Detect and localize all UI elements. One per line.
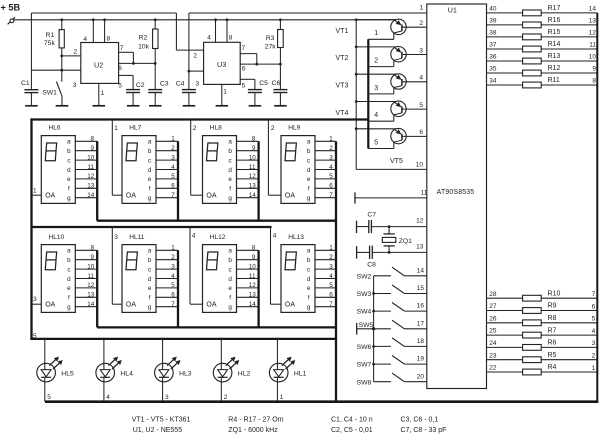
wire HL12 segment c net 10 (237, 263, 259, 270)
wire HL9 OA feed net 2 (268, 120, 281, 196)
pin U1 15 label (417, 285, 425, 292)
svg-text:12: 12 (589, 30, 597, 37)
wire U3 pin2 (176, 49, 203, 51)
svg-text:10: 10 (589, 54, 597, 61)
node base wire 4 label (374, 112, 378, 119)
capacitor C2 (126, 90, 140, 106)
resistor R11 (523, 82, 542, 88)
svg-text:6: 6 (118, 65, 122, 72)
svg-text:R12: R12 (548, 65, 561, 72)
svg-text:18: 18 (417, 338, 425, 345)
wire U3 pin6 (240, 63, 280, 65)
wire display block left bus (30, 118, 32, 340)
svg-text:1: 1 (171, 245, 175, 252)
capacitor C6 (273, 90, 287, 106)
svg-text:HL13: HL13 (288, 234, 304, 241)
wire HL9 segment e net 5 (315, 173, 336, 180)
node R3-pin6 junction (279, 63, 282, 66)
pin U1 3 label (419, 47, 423, 54)
wire U3 pin5 (240, 79, 255, 89)
svg-text:10: 10 (249, 154, 257, 161)
node net 7 label (592, 291, 596, 298)
svg-text:HL8: HL8 (210, 124, 222, 131)
resistor R10 label (548, 290, 561, 297)
LED HL5 label (61, 370, 74, 377)
wire U2 output link top (31, 12, 176, 14)
ground C7 terminal bar (356, 221, 358, 233)
wire HL9 segment a net 1 (315, 136, 336, 143)
ground U2 pin1 (93, 105, 106, 107)
caption C7 C8 (401, 427, 447, 434)
switch SW4 (374, 303, 427, 312)
svg-text:c: c (307, 157, 310, 164)
pin U2 3 label (73, 82, 77, 89)
wire U1 pin23 net 2 (487, 359, 598, 361)
svg-text:R9: R9 (548, 303, 557, 310)
svg-text:13: 13 (589, 18, 597, 25)
node rail-R2 junction (154, 18, 157, 21)
svg-text:1: 1 (592, 365, 596, 372)
switch SW6 label (357, 344, 372, 351)
display HL7 label (129, 124, 141, 131)
svg-text:5: 5 (374, 139, 378, 146)
wire HL10 segment g net 14 (75, 301, 97, 308)
wire U3 pin3 (189, 70, 204, 72)
svg-text:12: 12 (416, 218, 424, 225)
svg-text:C3: C3 (160, 81, 169, 88)
capacitor C3 label (160, 81, 169, 88)
svg-text:3: 3 (73, 82, 77, 89)
wire HL8 segment d net 11 (237, 164, 259, 171)
wire HL10 segment a net 8 (75, 245, 97, 252)
display HL12 box (203, 245, 237, 313)
node C8-ZQ1 junction (388, 251, 391, 254)
svg-text:HL7: HL7 (129, 124, 141, 131)
caption resistors (228, 416, 283, 423)
transistor VT5 label (390, 158, 403, 165)
svg-text:HL1: HL1 (294, 370, 307, 377)
wire HL11 segment c net 3 (156, 263, 178, 270)
svg-text:13: 13 (249, 183, 257, 190)
node U2 pin8 rail junction (103, 18, 106, 21)
resistor R6 (523, 345, 542, 351)
wire HL10 segment d net 11 (75, 273, 97, 280)
svg-text:4: 4 (374, 112, 378, 119)
wire U1 pin28 net 7 (487, 297, 598, 299)
display HL7 box (122, 136, 156, 204)
svg-text:R11: R11 (548, 77, 560, 84)
wire row2 collect bus (97, 326, 336, 328)
svg-text:g: g (148, 195, 152, 202)
svg-text:VT2: VT2 (336, 55, 349, 62)
pin U1 10 label (416, 161, 424, 168)
svg-text:SW4: SW4 (357, 309, 372, 316)
display HL10 box (41, 245, 75, 313)
svg-text:14: 14 (589, 6, 597, 13)
svg-text:4: 4 (171, 164, 175, 171)
wire U1 pin36 net 10 (487, 60, 598, 62)
svg-text:f: f (68, 295, 70, 302)
display HL10 label (49, 234, 65, 241)
svg-text:19: 19 (417, 356, 425, 363)
node R1-pin3 junction (60, 69, 63, 72)
node rail corner junction (355, 18, 358, 21)
svg-text:VT1: VT1 (336, 28, 349, 35)
svg-text:HL10: HL10 (49, 234, 65, 241)
svg-text:f: f (229, 295, 231, 302)
resistor R11 label (548, 77, 560, 84)
svg-text:c: c (229, 157, 232, 164)
svg-text:VT3: VT3 (336, 83, 349, 90)
node U3 pin4 rail junction (214, 18, 217, 21)
svg-text:5: 5 (171, 282, 175, 289)
svg-text:6: 6 (329, 183, 333, 190)
svg-text:11: 11 (88, 273, 95, 280)
svg-text:2: 2 (193, 52, 197, 59)
svg-text:a: a (148, 248, 152, 255)
svg-text:7: 7 (242, 45, 246, 52)
op-amp U1 label (448, 6, 457, 15)
svg-text:OA: OA (285, 302, 295, 309)
svg-text:e: e (307, 176, 311, 183)
pin U1 12 label (416, 218, 424, 225)
svg-text:ZQ1: ZQ1 (399, 238, 412, 245)
svg-text:R17: R17 (548, 5, 561, 12)
pin U1 35 label (489, 66, 497, 73)
svg-text:e: e (148, 285, 152, 292)
svg-text:1: 1 (171, 136, 175, 143)
svg-text:d: d (67, 167, 71, 174)
pin U2 4 label (83, 36, 87, 43)
switch SW2 label (357, 273, 372, 280)
resistor R12 (523, 70, 542, 76)
svg-text:7: 7 (329, 301, 333, 308)
svg-text:9: 9 (252, 254, 256, 261)
node U3 pin8 rail junction (226, 18, 229, 21)
svg-text:C5: C5 (259, 80, 268, 87)
svg-text:35: 35 (489, 66, 497, 73)
capacitor C7 (357, 220, 427, 233)
svg-text:OA: OA (126, 193, 136, 200)
ground SW5 terminal bar (356, 323, 358, 335)
resistor R14 (523, 46, 542, 52)
svg-text:g: g (307, 304, 311, 311)
svg-text:10: 10 (87, 263, 95, 270)
switch SW7 (374, 356, 427, 365)
wire bottom border bus (45, 400, 598, 403)
display HL9 label (288, 124, 300, 131)
svg-text:d: d (228, 167, 232, 174)
pin U1 37 label (489, 42, 497, 49)
svg-text:9: 9 (90, 254, 94, 261)
pin U1 14 label (417, 267, 425, 274)
svg-text:g: g (228, 304, 232, 311)
svg-text:7: 7 (171, 301, 175, 308)
pin U1 11 label (421, 190, 428, 197)
svg-text:4: 4 (106, 394, 110, 401)
svg-text:a: a (228, 248, 232, 255)
wire HL8 segment a net 8 (237, 136, 259, 143)
svg-text:c: c (229, 266, 232, 273)
svg-text:38: 38 (489, 30, 497, 37)
wire HL13 OA feed net 4 (271, 227, 282, 304)
svg-text:R5: R5 (548, 352, 557, 359)
svg-text:12: 12 (87, 282, 95, 289)
svg-text:5: 5 (329, 173, 333, 180)
wire HL12 OA feed net 4 (190, 227, 203, 304)
svg-text:14: 14 (249, 301, 257, 308)
wire HL11 segment a net 1 (156, 245, 178, 252)
LED HL4 (96, 338, 122, 402)
svg-text:b: b (228, 148, 232, 155)
node net 4 label (592, 328, 596, 335)
wire switch common bus (373, 276, 375, 382)
node net 1 label (592, 365, 596, 372)
wire display block right bus (335, 141, 337, 401)
wire HL8 segment e net 12 (237, 173, 259, 180)
node SW6 bus junction (372, 345, 375, 348)
svg-text:R4: R4 (548, 364, 557, 371)
wire HL13 segment e net 5 (315, 282, 336, 289)
svg-text:8: 8 (229, 34, 233, 41)
svg-text:17: 17 (417, 320, 425, 327)
svg-text:2: 2 (171, 145, 175, 152)
svg-text:R6: R6 (548, 340, 557, 347)
svg-text:11: 11 (249, 273, 256, 280)
ground C2 (127, 105, 139, 107)
svg-text:1: 1 (114, 125, 118, 132)
wire HL7 segment b net 2 (156, 145, 178, 152)
display HL11 label (129, 234, 145, 241)
display HL12 label (210, 234, 226, 241)
caption transistors (132, 416, 191, 423)
svg-text:HL9: HL9 (288, 124, 300, 131)
resistor R5 label (548, 352, 557, 359)
svg-text:g: g (148, 304, 152, 311)
svg-text:7: 7 (592, 291, 596, 298)
op-amp U2 label (94, 61, 103, 70)
resistor R2 (153, 20, 158, 90)
svg-text:8: 8 (252, 136, 256, 143)
pin U2 5 label (118, 82, 122, 89)
svg-text:25: 25 (489, 328, 497, 335)
svg-text:11: 11 (88, 164, 95, 171)
svg-text:14: 14 (87, 301, 95, 308)
svg-text:2: 2 (329, 254, 333, 261)
svg-text:16: 16 (417, 303, 425, 310)
pin U1 18 label (417, 338, 425, 345)
resistor R3 label (265, 35, 277, 51)
capacitor C4 label (176, 80, 185, 87)
svg-text:28: 28 (489, 291, 497, 298)
svg-text:2: 2 (224, 394, 228, 401)
svg-text:1: 1 (280, 394, 284, 401)
wire HL10 segment e net 12 (75, 282, 97, 289)
svg-text:R4 - R17 - 27 Om: R4 - R17 - 27 Om (228, 416, 283, 423)
LED HL2 label (238, 370, 251, 377)
wire U3 pin4 stub (215, 20, 217, 43)
node base wire 1 label (374, 30, 378, 37)
svg-text:5: 5 (419, 102, 423, 109)
switch SW7 label (357, 362, 372, 369)
svg-text:4: 4 (273, 233, 277, 240)
ground C4 (183, 105, 196, 107)
wire HL9 segment b net 2 (315, 145, 336, 152)
resistor R5 (523, 357, 542, 363)
node rail-R1 junction (60, 18, 63, 21)
node C7-ZQ1 junction (388, 225, 391, 228)
wire HL13 segment c net 3 (315, 263, 336, 270)
wire HL6 segment b net 9 (75, 145, 97, 152)
resistor R10 (523, 295, 542, 301)
svg-text:d: d (148, 167, 152, 174)
LED HL1 (269, 338, 295, 402)
wire HL6 segment g net 14 (75, 192, 97, 199)
wire U1 pin22 net 1 (487, 371, 598, 373)
pin U1 34 label (489, 78, 497, 85)
capacitor C7 label (367, 212, 376, 219)
LED HL3 (155, 338, 181, 402)
wire U2 pin2 (62, 55, 81, 57)
wire U1 pin10 (+5V) (356, 168, 427, 170)
switch SW2 (374, 267, 427, 276)
svg-text:8: 8 (90, 245, 94, 252)
wire U1 pin27 net 6 (487, 310, 598, 312)
pin U1 4 label (419, 75, 423, 82)
pin U2 1 label (101, 90, 105, 97)
LED HL2 (213, 338, 239, 402)
svg-text:d: d (67, 276, 71, 283)
svg-text:6: 6 (329, 292, 333, 299)
wire +5V rail (14, 19, 397, 21)
wire HL11 OA feed net 3 (112, 227, 122, 304)
wire HL10 segment bus drop (96, 250, 98, 327)
wire HL10 segment c net 10 (75, 263, 97, 270)
svg-text:4: 4 (329, 164, 333, 171)
svg-text:11: 11 (421, 190, 428, 197)
svg-text:5: 5 (33, 333, 37, 340)
svg-text:6: 6 (242, 65, 246, 72)
LED HL1 label (294, 370, 307, 377)
svg-text:4: 4 (592, 328, 596, 335)
wire HL8 segment b net 9 (237, 145, 259, 152)
capacitor C8 (357, 246, 427, 259)
wire HL8 segment bus drop (257, 141, 259, 220)
wire HL9 segment c net 3 (315, 154, 336, 161)
svg-text:9: 9 (90, 145, 94, 152)
svg-text:SW6: SW6 (357, 344, 372, 351)
svg-text:SW2: SW2 (357, 273, 372, 280)
node net 6 label (592, 303, 596, 310)
svg-text:a: a (67, 248, 71, 255)
svg-text:3: 3 (196, 81, 200, 88)
crystal ZQ1 (382, 227, 396, 253)
node net 2 label (592, 353, 596, 360)
svg-text:24: 24 (489, 340, 497, 347)
resistor R16 (523, 22, 542, 28)
svg-text:R1: R1 (46, 32, 55, 39)
pin U2 7 label (120, 45, 124, 52)
svg-text:ZQ1 - 6000 kHz: ZQ1 - 6000 kHz (228, 427, 278, 434)
wire HL10 segment f net 13 (75, 292, 97, 299)
wire HL11 segment b net 2 (156, 254, 178, 261)
wire HL13 segment b net 2 (315, 254, 336, 261)
svg-text:6: 6 (171, 183, 175, 190)
svg-text:3: 3 (171, 154, 175, 161)
wire HL7 segment bus drop (177, 141, 179, 220)
transistor VT5 (355, 127, 427, 148)
transistor VT3 (355, 73, 427, 94)
svg-text:OA: OA (206, 302, 216, 309)
wire HL12 segment b net 9 (237, 254, 259, 261)
svg-text:R13: R13 (548, 53, 561, 60)
wire LED top bus (30, 338, 336, 340)
wire HL12 segment f net 13 (237, 292, 259, 299)
svg-text:1: 1 (329, 136, 333, 143)
wire U2 pin4 stub (92, 20, 94, 43)
display HL13 label (288, 234, 304, 241)
svg-text:g: g (228, 195, 232, 202)
switch SW1 (56, 82, 62, 106)
caption C3 C6 (401, 416, 439, 423)
node LED net 1 label (280, 394, 284, 401)
capacitor C4 (182, 90, 196, 106)
node SW4 bus junction (372, 310, 375, 313)
svg-text:40: 40 (489, 6, 497, 13)
transistor VT4 label (336, 110, 349, 117)
svg-text:13: 13 (87, 292, 95, 299)
display HL11 box (122, 245, 156, 313)
svg-text:34: 34 (489, 78, 497, 85)
svg-text:3: 3 (329, 263, 333, 270)
svg-text:5: 5 (118, 82, 122, 89)
node net 14 label (589, 6, 597, 13)
wire HL9 segment g net 7 (315, 192, 336, 199)
wire U2 pin7 (119, 52, 134, 63)
svg-text:HL4: HL4 (120, 370, 133, 377)
op-amp U1 part number (437, 189, 475, 196)
svg-text:C4: C4 (176, 80, 185, 87)
svg-text:SW5: SW5 (359, 322, 374, 329)
op-amp U3 box (204, 42, 241, 84)
pin U3 1 label (223, 88, 227, 95)
svg-text:12: 12 (87, 173, 95, 180)
svg-text:27k: 27k (265, 44, 277, 51)
pin U1 38 label (489, 30, 497, 37)
wire HL8 segment f net 13 (237, 183, 259, 190)
svg-text:10: 10 (249, 263, 257, 270)
svg-text:39: 39 (489, 18, 497, 25)
svg-text:R2: R2 (139, 34, 148, 41)
pin U1 28 label (489, 291, 497, 298)
switch SW1 label (42, 89, 57, 96)
pin U2 2 label (74, 48, 78, 55)
display HL6 label (49, 124, 61, 131)
svg-text:U2: U2 (94, 61, 103, 70)
svg-text:8: 8 (107, 35, 111, 42)
svg-text:3: 3 (374, 85, 378, 92)
wire HL7 segment f net 6 (156, 183, 178, 190)
svg-text:1: 1 (419, 4, 423, 11)
svg-text:d: d (228, 276, 232, 283)
node U3 pin3 junction (188, 70, 191, 73)
svg-text:HL2: HL2 (238, 370, 251, 377)
resistor R16 label (548, 17, 561, 24)
resistor R17 label (548, 5, 561, 12)
resistor R8 label (548, 315, 557, 322)
power terminal connector arrow (8, 17, 16, 24)
wire HL11 segment e net 5 (156, 282, 178, 289)
